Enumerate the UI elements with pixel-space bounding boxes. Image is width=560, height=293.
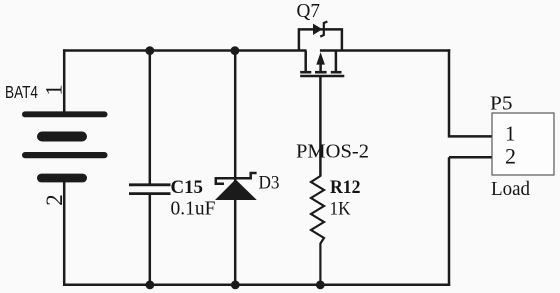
svg-text:1: 1	[42, 84, 67, 96]
svg-text:R12: R12	[330, 177, 361, 198]
svg-text:Load: Load	[491, 179, 530, 200]
svg-text:BAT4: BAT4	[5, 82, 38, 102]
svg-text:Q7: Q7	[297, 1, 321, 22]
svg-text:P5: P5	[490, 94, 513, 115]
svg-text:D3: D3	[259, 173, 280, 194]
svg-text:1K: 1K	[330, 199, 351, 220]
svg-text:2: 2	[505, 144, 516, 169]
svg-text:C15: C15	[171, 177, 204, 198]
svg-text:1: 1	[505, 122, 516, 146]
svg-text:2: 2	[42, 194, 67, 206]
svg-text:PMOS-2: PMOS-2	[296, 141, 369, 163]
svg-text:0.1uF: 0.1uF	[171, 199, 216, 220]
